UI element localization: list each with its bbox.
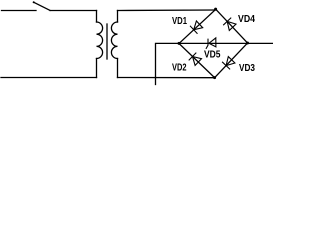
transformer core [106,24,108,59]
wire: top rail secondary to bridge top [118,9,216,12]
transformer T secondary coil [111,22,117,59]
diode VD3 [223,57,235,69]
wire: bridge center line through VD5 to right edge [179,42,273,44]
wire: secondary top lead [117,11,119,23]
wire: bridge arm L-B [179,44,215,78]
diode VD4 [224,18,236,30]
wire: bottom-left rail [1,77,97,79]
svg-text:VD1: VD1 [172,16,187,27]
node T junction dot [214,8,217,11]
switch S blade [34,2,50,10]
transformer T primary coil [97,22,103,59]
diode VD1 [190,21,202,33]
wire: bridge arm B-R [215,43,248,78]
node B junction dot [213,76,216,79]
node L junction dot [178,42,181,45]
wire: top-left rail to switch [2,10,37,12]
svg-text:VD4: VD4 [238,14,255,25]
wire: secondary bottom lead [117,59,119,78]
wire: center line left segment with corner [156,43,180,77]
wire: primary bottom lead [96,59,98,78]
wire: stub below bottom rail [155,78,157,85]
node R junction dot [246,42,249,45]
diode VD2 [189,53,201,65]
switch S pivot dot [33,1,35,3]
svg-text:VD2: VD2 [172,63,187,74]
wire: primary top lead [96,11,98,23]
wire: switch to transformer primary [50,10,97,12]
svg-text:VD3: VD3 [239,63,255,74]
svg-text:VD5: VD5 [204,50,221,61]
wire: bridge arm T-L [179,9,216,43]
diode VD5 [206,38,216,49]
wire: bridge arm T-R [216,9,248,43]
wire: bottom rail secondary to bridge bottom [118,77,215,79]
